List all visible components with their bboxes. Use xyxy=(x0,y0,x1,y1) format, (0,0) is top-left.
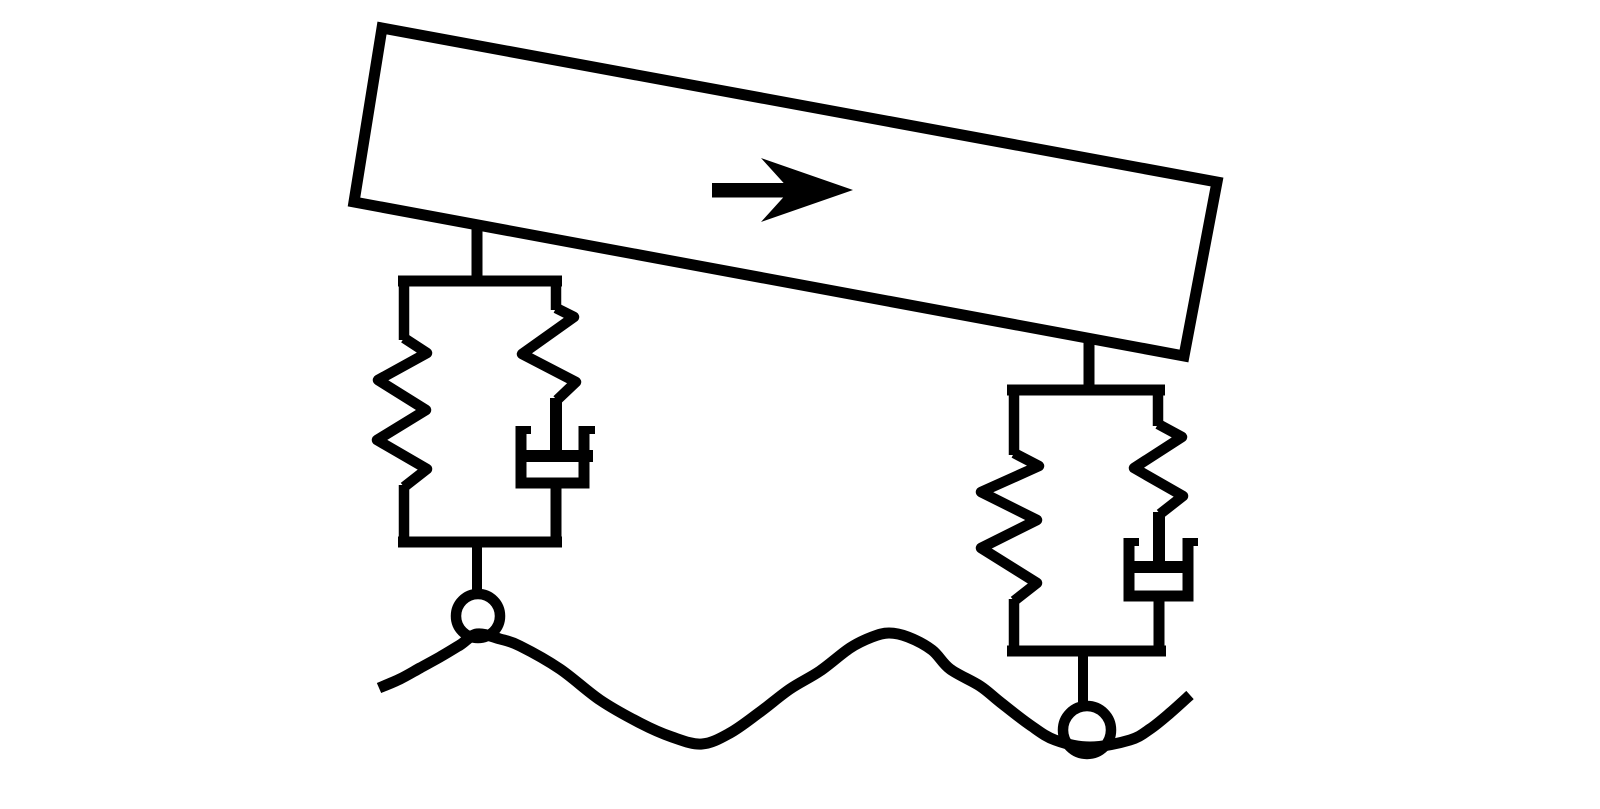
left suspension: lower stem to wheel xyxy=(472,542,482,596)
right suspension: lower stem to wheel xyxy=(1078,651,1088,706)
left suspension: damper lower rod xyxy=(551,483,562,547)
left wheel (contact follower circle) xyxy=(456,594,500,638)
right suspension: damper cup right rim tick xyxy=(1188,538,1198,546)
right suspension: damper branch upper lead xyxy=(1153,385,1164,426)
left suspension: damper branch upper lead xyxy=(551,276,562,310)
velocity arrow shaft xyxy=(712,183,796,198)
right suspension: spring upper lead xyxy=(1009,385,1020,455)
right suspension: damper lower rod xyxy=(1154,596,1165,656)
right suspension: damper cylinder cup xyxy=(1129,538,1188,596)
right suspension: upper stem from body xyxy=(1084,340,1095,390)
road surface (wavy ground profile) xyxy=(379,633,1190,747)
right suspension: damper piston xyxy=(1130,561,1190,573)
left suspension: damper branch zigzag xyxy=(522,308,576,400)
left suspension: damper piston xyxy=(526,450,593,462)
right suspension: damper cup left rim tick xyxy=(1129,538,1139,546)
vehicle body (sprung mass, tilted rectangle) xyxy=(354,28,1217,356)
right suspension: top bar xyxy=(1007,385,1165,396)
right suspension: spring lower lead xyxy=(1009,599,1020,656)
left suspension: damper cup left rim tick xyxy=(521,426,531,434)
right suspension: spring K2 zigzag xyxy=(981,453,1039,601)
right wheel (contact follower circle) xyxy=(1063,706,1111,754)
left suspension: damper cylinder cup xyxy=(521,426,584,483)
left suspension: top bar xyxy=(398,276,562,287)
right suspension: damper branch zigzag xyxy=(1134,424,1183,514)
left suspension: bottom bar xyxy=(398,537,562,548)
left suspension: spring upper lead xyxy=(399,276,410,340)
left suspension: spring lower lead xyxy=(399,485,410,547)
right suspension: damper piston rod xyxy=(1153,512,1165,563)
left suspension: damper cup right rim tick xyxy=(584,426,595,434)
right suspension: bottom bar xyxy=(1007,646,1166,657)
left suspension: damper piston rod xyxy=(550,398,562,452)
left suspension: upper stem from body xyxy=(472,224,483,281)
velocity arrow head xyxy=(761,158,853,222)
left suspension: spring K1 zigzag xyxy=(377,338,427,487)
